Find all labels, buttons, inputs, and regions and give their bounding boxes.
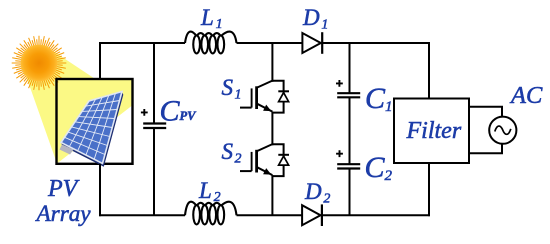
svg-text:PV: PV	[47, 176, 80, 202]
wire top rail mid	[237, 42, 303, 44]
wire top rail left	[99, 42, 185, 44]
wire bottom rail right	[322, 214, 431, 216]
inductor L1	[193, 35, 200, 53]
plus C1	[336, 80, 343, 87]
inductor L2	[193, 205, 200, 224]
PV array box	[57, 79, 133, 164]
sun	[12, 36, 67, 91]
wire S2 emitter to rail	[271, 175, 273, 215]
light beam	[25, 47, 132, 164]
filter box	[394, 99, 469, 164]
capacitor CPV branch wires	[153, 43, 155, 124]
wire filter top drop	[428, 43, 430, 99]
diode D2	[302, 205, 320, 225]
transistor S2	[272, 144, 283, 176]
wire PV bottom lead	[99, 164, 101, 216]
transistor S1	[272, 81, 283, 113]
wire C1 branch top	[349, 43, 351, 93]
PV panel	[60, 92, 124, 167]
plus C2	[336, 150, 343, 157]
wire C1-C2 link	[349, 97, 351, 164]
svg-text:Array: Array	[35, 201, 92, 227]
wire C2 to rail	[349, 169, 351, 216]
capacitor C2	[337, 163, 360, 165]
wire filter bottom drop	[428, 163, 430, 216]
wire S branch top	[271, 43, 273, 82]
svg-text:AC: AC	[509, 82, 543, 109]
wire bottom rail left	[99, 214, 185, 216]
wire AC top	[469, 107, 502, 117]
wire S1-S2 link	[271, 112, 273, 146]
plus CPV	[141, 109, 148, 116]
wire AC bottom	[469, 144, 502, 153]
diode D1	[302, 33, 320, 53]
wire top rail right	[322, 42, 430, 44]
capacitor C1	[337, 92, 360, 94]
wire bottom rail mid	[237, 214, 303, 216]
capacitor CPV	[143, 122, 166, 124]
wire PV top lead	[99, 44, 101, 79]
svg-text:Filter: Filter	[406, 118, 462, 144]
AC source	[489, 117, 516, 144]
